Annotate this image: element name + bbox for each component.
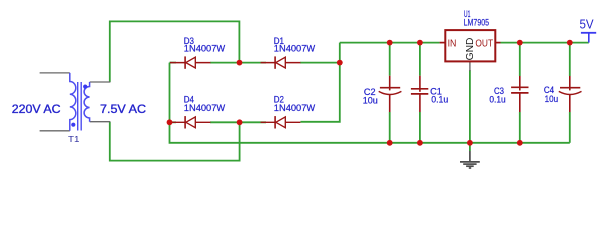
power port 5V xyxy=(580,18,597,43)
svg-text:1N4007W: 1N4007W xyxy=(274,44,316,54)
svg-text:10u: 10u xyxy=(545,94,559,104)
wire: D4 anode stub xyxy=(170,121,177,123)
svg-text:IN: IN xyxy=(448,38,457,50)
junction ground xyxy=(467,140,473,146)
T1 primary polarity dot xyxy=(71,123,75,127)
diode D3 xyxy=(170,56,210,68)
T1 primary winding xyxy=(70,73,76,131)
junction C2 top xyxy=(387,40,393,46)
wire: D1 cathode link xyxy=(300,62,340,64)
wire: C2 top drop xyxy=(389,43,391,76)
wire: C3 bottom drop xyxy=(519,112,521,143)
wire: C2 bottom drop xyxy=(389,112,391,143)
U1 IN pin xyxy=(440,42,446,44)
svg-text:LM7905: LM7905 xyxy=(464,17,490,27)
svg-text:0.1u: 0.1u xyxy=(489,94,505,104)
wire: bridge negative column + bottom ground rail xyxy=(170,63,570,143)
junction C2 bottom xyxy=(387,140,393,146)
wire: D4-D2 link xyxy=(210,121,266,123)
junction at bridge AC1 xyxy=(237,60,243,66)
svg-text:OUT: OUT xyxy=(475,38,493,50)
junction C4 top xyxy=(567,40,573,46)
svg-text:5V: 5V xyxy=(580,18,595,32)
svg-text:7.5V AC: 7.5V AC xyxy=(100,102,146,116)
regulator U1 xyxy=(440,30,501,71)
T1 secondary bottom lead xyxy=(90,121,111,123)
diode D1 xyxy=(261,56,301,68)
svg-text:1N4007W: 1N4007W xyxy=(274,103,316,113)
U1 GND pin xyxy=(469,61,471,71)
junction at D4 anode xyxy=(167,119,173,125)
svg-text:220V AC: 220V AC xyxy=(12,102,61,116)
svg-text:10u: 10u xyxy=(363,96,378,106)
wire: D3 anode stub xyxy=(170,62,177,64)
transformer T1 xyxy=(40,73,111,144)
wire: secondary top to bridge AC1 xyxy=(110,21,240,82)
wire: GND net drop from U1 xyxy=(469,70,471,151)
junction C1 bottom xyxy=(417,140,423,146)
U1 OUT pin xyxy=(495,42,500,44)
junction C1 top xyxy=(417,40,423,46)
capacitor C4 (electrolytic) xyxy=(559,76,582,112)
svg-text:1N4007W: 1N4007W xyxy=(184,103,226,113)
wire: U1 OUT rail to 5V xyxy=(501,42,589,44)
wire: C1 bottom drop xyxy=(419,112,421,143)
T1 secondary polarity dot xyxy=(83,85,87,89)
wire: C4 top drop xyxy=(569,43,571,76)
junction at D1 cathode xyxy=(337,60,343,66)
T1 core xyxy=(78,82,82,131)
diode D2 xyxy=(261,116,301,128)
junction C3 bottom xyxy=(517,140,523,146)
capacitor C3 xyxy=(511,76,528,112)
wire: C4 bottom drop xyxy=(569,112,571,143)
wire: D3-D1 link xyxy=(210,62,266,64)
svg-text:GND: GND xyxy=(464,37,476,60)
junction at bridge AC2 xyxy=(237,119,243,125)
T1 secondary top lead xyxy=(90,81,111,83)
T1 secondary winding xyxy=(84,82,90,122)
junction C3 top xyxy=(517,40,523,46)
capacitor C1 xyxy=(411,76,428,112)
wire: top rail to U1 IN xyxy=(340,42,440,44)
wire: C1 top drop xyxy=(419,43,421,76)
capacitor C2 (electrolytic) xyxy=(379,76,402,112)
U1 body xyxy=(445,30,495,61)
wire: secondary bottom to bridge AC2 xyxy=(110,122,240,161)
svg-text:T1: T1 xyxy=(68,134,80,144)
svg-text:0.1u: 0.1u xyxy=(431,95,448,105)
diode D4 xyxy=(170,116,210,128)
T1 primary top lead xyxy=(40,72,70,74)
wire: bridge positive column xyxy=(300,43,339,122)
svg-text:1N4007W: 1N4007W xyxy=(184,44,226,54)
wire: C3 top drop xyxy=(519,43,521,76)
T1 primary bottom lead xyxy=(40,130,70,132)
ground symbol xyxy=(460,151,480,168)
